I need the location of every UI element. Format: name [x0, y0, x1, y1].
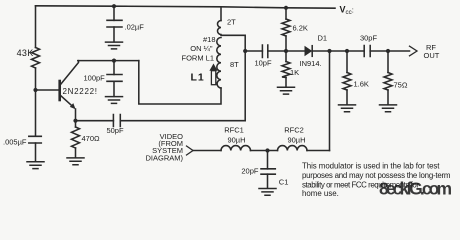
- node 6.2K/1K/diode junction: [284, 49, 288, 53]
- svg-text:This modulator is used in the: This modulator is used in the lab for te…: [302, 162, 440, 171]
- svg-text:FORM L1: FORM L1: [181, 54, 214, 63]
- transistor Q1 emitter arrowhead: [70, 103, 76, 109]
- svg-text:90µH: 90µH: [227, 135, 245, 144]
- svg-text:ON ¼": ON ¼": [190, 44, 213, 53]
- capacitor .005uF: [29, 136, 42, 143]
- ground under 100pF: [106, 97, 123, 104]
- svg-text:100pF: 100pF: [84, 73, 106, 82]
- svg-text:75Ω: 75Ω: [394, 81, 408, 90]
- wire RFC1 to RFC2: [251, 150, 278, 152]
- wire coil top stem: [220, 7, 222, 21]
- svg-text:2N2222!: 2N2222!: [63, 87, 98, 96]
- RF OUT arrowhead: [410, 46, 418, 56]
- svg-text:RFC1: RFC1: [224, 126, 244, 135]
- svg-text:6.2K: 6.2K: [293, 24, 308, 33]
- wire base: [36, 89, 59, 91]
- inductor L1 2T winding: [218, 21, 221, 35]
- transistor Q1 emitter lead: [61, 96, 74, 108]
- wire 20pF stem: [267, 151, 269, 189]
- inductor L1 8T winding: [217, 38, 221, 88]
- svg-text:43K: 43K: [17, 48, 34, 58]
- node 75ohm junction: [386, 49, 390, 53]
- wire to 10pF: [245, 50, 262, 52]
- transistor Q1 collector lead: [61, 61, 79, 85]
- ground under 75ohm: [380, 105, 397, 112]
- video input chevron: [187, 146, 194, 155]
- wire left branch vertical (43K column): [35, 6, 37, 162]
- node base junction: [33, 88, 37, 92]
- svg-text:DIAGRAM): DIAGRAM): [146, 153, 184, 162]
- wire collector rail: [78, 60, 139, 62]
- wire 30pF to RF out: [370, 50, 409, 52]
- svg-text:L1: L1: [191, 72, 205, 84]
- wire Vcc top rail: [36, 6, 336, 8]
- svg-text:10pF: 10pF: [254, 59, 272, 68]
- svg-text:#18: #18: [203, 35, 216, 44]
- svg-text:D1: D1: [318, 34, 328, 43]
- ground under C1: [259, 189, 276, 196]
- ground under 1K: [278, 87, 295, 94]
- node RFC2 riser junction: [327, 49, 331, 53]
- svg-text:RFC2: RFC2: [284, 126, 304, 135]
- wire emitter to 50pF: [76, 120, 114, 122]
- svg-text:1K: 1K: [290, 68, 299, 77]
- note text: [302, 162, 451, 199]
- resistor R 1.6K: [343, 73, 351, 91]
- capacitor 100pF: [107, 75, 122, 82]
- wire 50pF to tap riser: [120, 120, 245, 122]
- node 6.2K top junction: [284, 6, 288, 10]
- capacitor 50pF: [113, 115, 120, 127]
- node tap/10pF junction: [243, 49, 247, 53]
- svg-text:.02µF: .02µF: [125, 23, 145, 32]
- resistor R 75ohm: [384, 73, 392, 91]
- wire collector feedback to coil bottom: [139, 61, 221, 104]
- svg-text:30pF: 30pF: [360, 33, 378, 42]
- node .02uF top junction: [112, 4, 116, 8]
- svg-text:1.6K: 1.6K: [354, 80, 369, 89]
- svg-text:90µH: 90µH: [287, 135, 305, 144]
- wire 1.6K stems: [346, 51, 348, 105]
- wire .02uF stem: [113, 6, 115, 42]
- wire tap riser down to 50pF line: [244, 51, 246, 121]
- node emitter junction: [73, 119, 77, 123]
- diode D1: [305, 46, 313, 57]
- wire 6.2K stems: [285, 8, 287, 87]
- wire emitter down: [75, 109, 77, 121]
- svg-text:.005µF: .005µF: [3, 138, 27, 147]
- svg-text:8eckfG.com: 8eckfG.com: [379, 178, 452, 198]
- ground under .02uF: [106, 42, 123, 49]
- resistor R 43K: [32, 48, 40, 69]
- inductor RFC1: [221, 146, 251, 151]
- capacitor .02uF: [107, 20, 122, 27]
- wire video line left: [193, 150, 221, 152]
- wire diode cathode to 30pF: [312, 50, 364, 52]
- transistor Q1 2N2222 base bar: [58, 81, 61, 100]
- node 20pF junction: [265, 148, 269, 152]
- wire RFC2 riser: [329, 51, 331, 151]
- resistor R 1K: [282, 62, 290, 78]
- svg-text:50pF: 50pF: [106, 126, 124, 135]
- svg-text:OUT: OUT: [424, 51, 440, 60]
- node 1.6K junction: [345, 49, 349, 53]
- ground under .005uF: [27, 162, 44, 169]
- wire 470 stem: [75, 121, 77, 158]
- capacitor 30pF: [364, 46, 370, 57]
- capacitor 10pF: [262, 45, 267, 58]
- wire 100pF stem: [113, 61, 115, 97]
- L1 tuning slug arrowhead: [209, 64, 217, 71]
- inductor RFC2: [278, 146, 307, 151]
- wire 10pF to diode anode: [268, 50, 305, 52]
- resistor R 6.2K: [282, 19, 290, 36]
- svg-text:C1: C1: [279, 178, 289, 187]
- svg-text:470Ω: 470Ω: [82, 134, 101, 143]
- wire RFC2 to riser: [307, 150, 330, 152]
- wire tap to riser: [221, 35, 245, 51]
- svg-text:8T: 8T: [230, 60, 239, 69]
- capacitor 20pF C1: [261, 169, 275, 174]
- ground under 470: [67, 158, 84, 165]
- wire 75ohm stems: [387, 51, 389, 105]
- resistor R 470: [72, 127, 80, 148]
- svg-text:20pF: 20pF: [241, 166, 259, 175]
- svg-text:2T: 2T: [227, 17, 236, 26]
- L1 tuning slug shaft: [211, 71, 215, 85]
- node collector/100pF junction: [112, 59, 116, 63]
- svg-text:home use.: home use.: [302, 189, 339, 198]
- ground under 1.6K: [339, 105, 356, 112]
- svg-text:IN914.: IN914.: [300, 59, 322, 68]
